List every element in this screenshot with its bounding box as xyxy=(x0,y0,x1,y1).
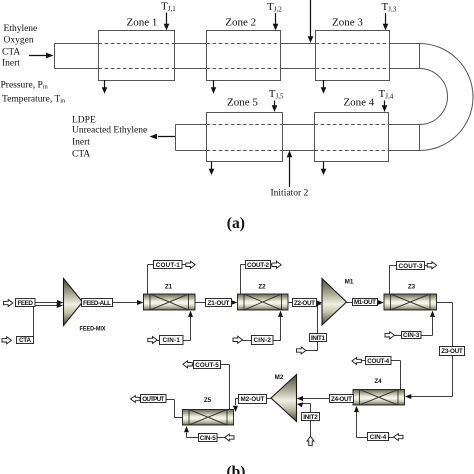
svg-text:CIN-4: CIN-4 xyxy=(370,434,387,441)
svg-text:Initiator 2: Initiator 2 xyxy=(271,188,309,198)
svg-text:CTA: CTA xyxy=(19,337,31,344)
svg-text:(b): (b) xyxy=(227,464,246,474)
svg-text:Zone 5: Zone 5 xyxy=(227,97,258,109)
svg-text:CIN-2: CIN-2 xyxy=(253,337,271,344)
svg-text:CIN-3: CIN-3 xyxy=(403,332,420,339)
svg-text:COUT-3: COUT-3 xyxy=(399,263,423,270)
svg-text:Zone 1: Zone 1 xyxy=(127,17,158,29)
svg-text:Zone 4: Zone 4 xyxy=(343,97,374,109)
svg-text:Inert: Inert xyxy=(2,59,20,69)
svg-text:Z3-OUT: Z3-OUT xyxy=(441,348,463,355)
svg-text:CTA: CTA xyxy=(72,149,90,159)
svg-text:COUT-4: COUT-4 xyxy=(367,358,389,365)
svg-text:Z1: Z1 xyxy=(165,284,173,291)
svg-text:Oxygen: Oxygen xyxy=(4,36,34,46)
svg-text:Unreacted Ethylene: Unreacted Ethylene xyxy=(72,126,147,136)
svg-text:Pressure, Pin: Pressure, Pin xyxy=(1,81,49,91)
svg-text:LDPE: LDPE xyxy=(72,115,96,125)
svg-text:Z2-OUT: Z2-OUT xyxy=(294,300,315,307)
svg-text:Inert: Inert xyxy=(72,138,90,148)
svg-text:COUT-1: COUT-1 xyxy=(156,262,180,269)
svg-text:FEED: FEED xyxy=(17,300,33,307)
svg-text:Temperature, Tin: Temperature, Tin xyxy=(2,95,66,105)
svg-text:INIT2: INIT2 xyxy=(303,414,318,421)
svg-text:M1-OUT: M1-OUT xyxy=(354,299,376,306)
svg-text:COUT-2: COUT-2 xyxy=(247,262,269,269)
svg-text:Z4-OUT: Z4-OUT xyxy=(331,396,352,403)
svg-text:OUTPUT: OUTPUT xyxy=(142,396,164,403)
svg-text:CTA: CTA xyxy=(2,48,20,58)
svg-text:CIN-5: CIN-5 xyxy=(200,435,216,442)
svg-text:Zone 3: Zone 3 xyxy=(332,17,363,29)
svg-text:M2: M2 xyxy=(275,374,284,381)
svg-text:Z4: Z4 xyxy=(374,378,382,385)
svg-text:INIT1: INIT1 xyxy=(311,335,325,342)
svg-text:M1: M1 xyxy=(345,279,354,286)
svg-text:FEED-ALL: FEED-ALL xyxy=(83,300,111,307)
svg-text:FEED-MIX: FEED-MIX xyxy=(80,326,107,333)
svg-text:COUT-5: COUT-5 xyxy=(195,362,219,369)
svg-text:Z3: Z3 xyxy=(408,284,416,291)
svg-text:Ethylene: Ethylene xyxy=(4,24,38,34)
svg-text:Z2: Z2 xyxy=(258,284,266,291)
svg-text:CIN-1: CIN-1 xyxy=(162,337,180,344)
svg-text:Z1-OUT: Z1-OUT xyxy=(208,300,230,307)
svg-text:(a): (a) xyxy=(227,215,245,232)
svg-text:Zone 2: Zone 2 xyxy=(225,17,256,29)
svg-text:M2-OUT: M2-OUT xyxy=(241,396,265,403)
svg-text:Z5: Z5 xyxy=(204,397,212,404)
